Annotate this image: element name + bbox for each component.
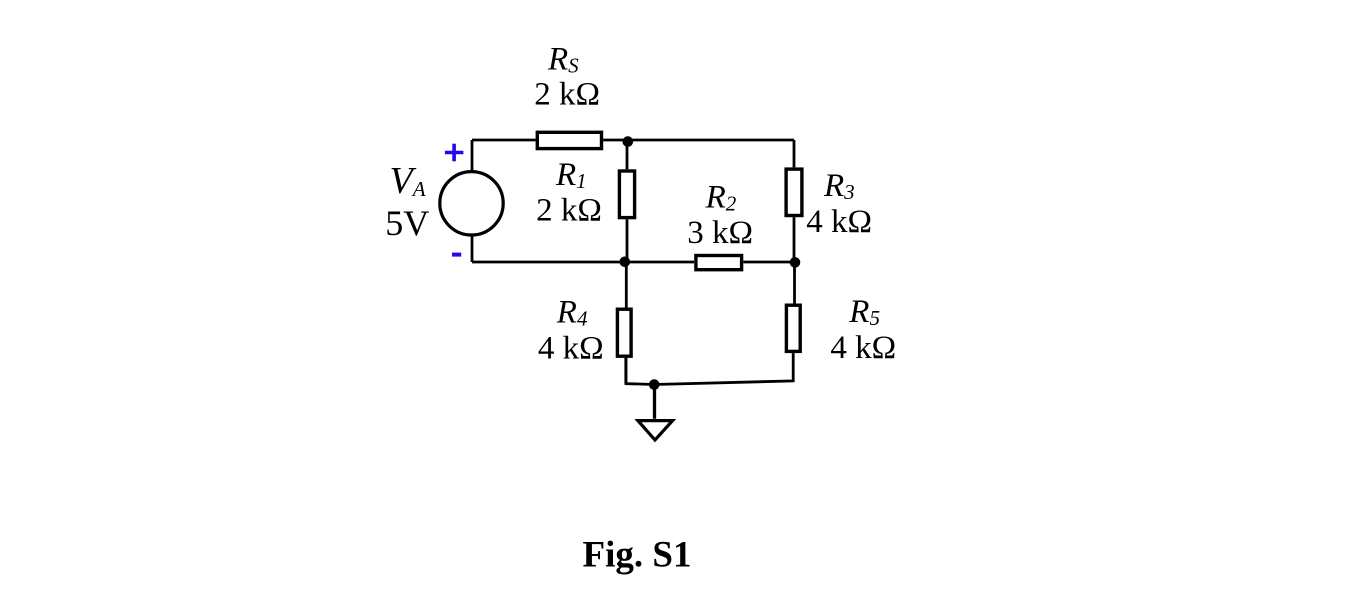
svg-text:3 kΩ: 3 kΩ	[687, 215, 753, 251]
svg-text:4 kΩ: 4 kΩ	[806, 204, 872, 240]
svg-text:4 kΩ: 4 kΩ	[538, 331, 604, 367]
svg-text:5V: 5V	[385, 203, 429, 243]
svg-text:2 kΩ: 2 kΩ	[536, 193, 602, 229]
svg-text:2 kΩ: 2 kΩ	[534, 76, 600, 112]
svg-text:4 kΩ: 4 kΩ	[830, 330, 896, 366]
svg-text:Fig. S1: Fig. S1	[583, 535, 692, 576]
